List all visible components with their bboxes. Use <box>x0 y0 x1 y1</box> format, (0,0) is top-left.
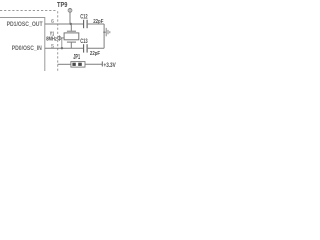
svg-text:5: 5 <box>51 44 54 50</box>
svg-text:22pF: 22pF <box>90 51 101 57</box>
svg-text:PD1/OSC_OUT: PD1/OSC_OUT <box>7 21 44 28</box>
svg-text:C13: C13 <box>80 38 88 45</box>
svg-text:PD0/OSC_IN: PD0/OSC_IN <box>12 45 42 52</box>
svg-text:C12: C12 <box>80 13 88 20</box>
svg-text:8MHz: 8MHz <box>46 37 57 43</box>
svg-text:+3.3V: +3.3V <box>104 62 117 69</box>
svg-text:JP1: JP1 <box>73 54 80 61</box>
svg-text:TP9: TP9 <box>57 2 67 9</box>
